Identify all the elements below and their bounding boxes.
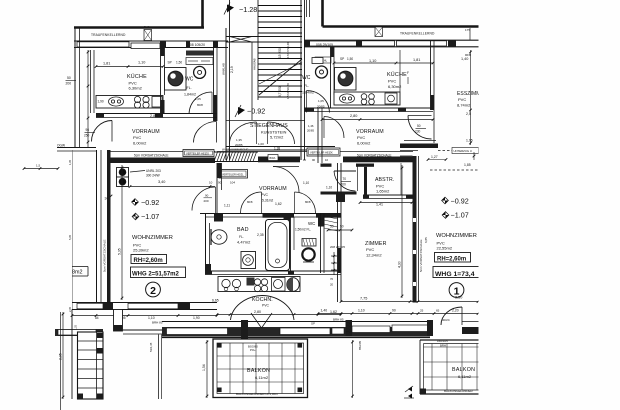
svg-text:8,7 250: 8,7 250: [278, 86, 282, 97]
balcony center tile grid horizontal: [217, 355, 304, 357]
svg-text:1,35: 1,35: [236, 138, 242, 142]
facade far-left segment: [55, 329, 103, 336]
svg-text:TRAUFENKELLERND: TRAUFENKELLERND: [91, 33, 126, 37]
svg-text:5,31m2: 5,31m2: [262, 199, 273, 203]
svg-text:SP: SP: [311, 322, 315, 326]
svg-text:1,10: 1,10: [326, 186, 332, 190]
svg-text:200: 200: [204, 199, 209, 203]
svg-text:3,40: 3,40: [158, 180, 165, 184]
svg-text:6,30m2: 6,30m2: [129, 86, 143, 91]
svg-text:008 105/20: 008 105/20: [188, 43, 205, 47]
svg-text:WNKLAB: WNKLAB: [222, 63, 226, 75]
door below wall opening left leaf: [273, 167, 299, 193]
svg-text:2,80: 2,80: [350, 114, 357, 118]
svg-text:80/8: 80/8: [247, 200, 253, 204]
kitchen counter right: [334, 92, 400, 105]
level flags bottom right: [408, 387, 412, 392]
window sill left facade 2: [131, 43, 160, 49]
wall center vorraum west: [216, 163, 218, 214]
svg-text:KÜCHE: KÜCHE: [127, 73, 147, 80]
balcony left structure: [78, 332, 104, 399]
svg-text:ABSTR.: ABSTR.: [375, 177, 394, 183]
svg-text:3,50: 3,50: [455, 296, 462, 300]
balcony right border: [420, 339, 479, 341]
label ANSCHL: [315, 57, 331, 63]
box WHG 1=73,4: [433, 267, 479, 278]
door entrance left apartment: [92, 121, 113, 142]
svg-text:1,65m2: 1,65m2: [376, 189, 390, 194]
svg-text:BAD: BAD: [237, 227, 249, 233]
facade right of balcony door: [462, 321, 479, 323]
wall stairwell east: [300, 0, 302, 160]
wall connector mid-right: [346, 320, 353, 336]
wall jog left: [123, 329, 162, 331]
shelf dark bar left wc: [186, 51, 214, 56]
svg-text:OGW: OGW: [57, 144, 65, 148]
door vorraum to wc: [295, 192, 316, 213]
balcony center corner blocks: [217, 343, 222, 348]
wall main horizontal center-right band: [258, 157, 300, 163]
svg-text:1,05: 1,05: [318, 99, 324, 103]
svg-text:1,35: 1,35: [68, 159, 72, 165]
door below wall opening right leaf: [334, 171, 356, 191]
svg-text:300 24/W: 300 24/W: [146, 174, 160, 178]
wall west lower double: [96, 150, 98, 303]
window marks zimmer west: [333, 252, 335, 275]
balcony right corner block: [420, 389, 426, 395]
svg-text:50: 50: [417, 124, 421, 128]
svg-text:70: 70: [330, 277, 334, 281]
svg-text:5,35: 5,35: [118, 248, 122, 255]
toilet right: [312, 58, 323, 64]
dashed unterzug label: [452, 148, 479, 154]
wall bad north: [200, 213, 341, 215]
box WHG 2=51,57m2: [131, 267, 186, 278]
level marker -1.28: [227, 5, 234, 13]
wall vorraum north: [96, 113, 217, 115]
svg-text:1,10: 1,10: [138, 61, 145, 65]
box RH=2,60m left: [131, 255, 167, 264]
wall south facade center top line: [162, 321, 430, 323]
svg-text:5cm VORSATZSCHALE: 5cm VORSATZSCHALE: [419, 240, 423, 272]
svg-text:1,95: 1,95: [466, 139, 473, 143]
svg-text:VERTEILER HEIZG: VERTEILER HEIZG: [186, 152, 209, 156]
level marker -1.07 right: [442, 212, 449, 219]
dim 2,35 rotated left balcony: [62, 312, 64, 399]
svg-text:1,10: 1,10: [148, 316, 155, 320]
svg-text:1,40: 1,40: [321, 309, 328, 313]
svg-text:1,10: 1,10: [358, 309, 365, 313]
svg-text:6,00m2: 6,00m2: [357, 141, 371, 146]
wall kueche east: [160, 48, 162, 113]
kochn dark appliance: [247, 278, 255, 286]
svg-text:20: 20: [330, 283, 334, 287]
svg-text:HAUSAB: HAUSAB: [253, 58, 257, 70]
svg-text:8,74m2: 8,74m2: [457, 103, 471, 108]
svg-text:BALKONGELÄNDER: BALKONGELÄNDER: [444, 389, 474, 393]
dim row second right: [318, 313, 478, 315]
wall step right: [400, 150, 418, 152]
wall hatched stahlwanne: [214, 151, 258, 153]
svg-text:4,30: 4,30: [398, 261, 402, 268]
dim line vertical west: [87, 50, 89, 147]
svg-text:80/8: 80/8: [305, 200, 311, 204]
level marker -1.07 left: [132, 213, 139, 220]
balcony right tile grid horizontal: [424, 346, 479, 348]
svg-text:1,90: 1,90: [193, 316, 200, 320]
svg-text:008 25/105: 008 25/105: [316, 43, 333, 47]
wall stairwell west: [225, 28, 227, 160]
wall stub top right wc: [306, 0, 308, 17]
svg-text:160/105: 160/105: [437, 339, 448, 343]
boiler left: [165, 68, 187, 91]
balcony center border: [213, 339, 308, 398]
svg-text:1,27: 1,27: [431, 155, 438, 159]
box VERTEILER HEIZK top: [307, 148, 340, 156]
svg-text:1,50m2 FL.: 1,50m2 FL.: [295, 228, 311, 232]
vent shaft B+S right: [375, 27, 383, 37]
dim 1,54 rotated: [206, 340, 208, 398]
svg-text:1,41: 1,41: [376, 203, 383, 207]
svg-text:4,47m2: 4,47m2: [237, 240, 251, 245]
svg-text:1,54: 1,54: [202, 364, 206, 371]
svg-text:80/8: 80/8: [197, 103, 203, 107]
svg-text:20/85: 20/85: [307, 129, 314, 133]
svg-text:1,85: 1,85: [464, 163, 471, 167]
window sill south left: [77, 303, 103, 309]
wall segment: [304, 40, 310, 47]
svg-text:BRH: BRH: [440, 344, 446, 348]
wall kueche east right: [430, 40, 432, 110]
svg-text:BRH 85: BRH 85: [333, 318, 344, 322]
svg-text:RH=2,60m: RH=2,60m: [134, 258, 163, 264]
svg-text:22,55m2: 22,55m2: [437, 246, 453, 251]
wall north facade right: [304, 39, 479, 41]
window sills facade right: [352, 326, 390, 333]
wall north facade left: [74, 40, 228, 42]
svg-text:2: 2: [150, 285, 156, 297]
svg-text:1,84m2: 1,84m2: [184, 93, 196, 97]
anschluss box left wc: [186, 58, 213, 65]
window sill left facade: [77, 42, 129, 47]
level marker -0.92 right: [442, 197, 449, 204]
dim line kueche right: [334, 62, 433, 64]
dim line vertical between balconies: [352, 340, 354, 398]
svg-text:BALKONGELÄNDER H=1,00m: BALKONGELÄNDER H=1,00m: [236, 392, 278, 396]
stair stringer line: [251, 42, 253, 120]
svg-text:PVC: PVC: [366, 247, 374, 252]
svg-text:WC: WC: [185, 77, 194, 83]
svg-text:10: 10: [209, 181, 213, 185]
dim row 7,75 / 3,50: [341, 301, 478, 303]
door stair to left apartment outer: [194, 122, 217, 143]
svg-text:5,35: 5,35: [68, 234, 72, 240]
door vorraum-right to esszimmer: [408, 116, 432, 140]
dim line wohnzimmer top: [130, 186, 215, 188]
door left wc: [189, 92, 212, 114]
svg-text:5cm VORSATZSCHALE: 5cm VORSATZSCHALE: [134, 154, 168, 158]
svg-text:1,62: 1,62: [275, 202, 282, 206]
svg-text:10: 10: [303, 158, 307, 162]
wall main horizontal left: [110, 151, 215, 153]
svg-text:6,65: 6,65: [212, 299, 219, 303]
window sill right facade 1: [310, 41, 358, 46]
svg-text:90: 90: [205, 194, 209, 198]
box VERTEILER HEIZL lower: [219, 170, 248, 179]
wall wc east shaft: [320, 214, 322, 274]
svg-text:90: 90: [312, 158, 316, 162]
bathtub: [266, 220, 290, 271]
double door kochn to balcony: [231, 296, 263, 321]
wall kochn north: [205, 270, 341, 272]
kitchen stove right: [361, 94, 367, 100]
box VERTEILER HEIZG: [183, 150, 214, 157]
svg-text:15 250: 15 250: [278, 48, 282, 58]
svg-text:1,81: 1,81: [103, 62, 110, 66]
svg-text:230: 230: [415, 130, 421, 134]
svg-text:1,10: 1,10: [369, 59, 376, 63]
wall connector left balcony: [114, 310, 123, 332]
svg-text:PVC: PVC: [357, 135, 365, 140]
svg-text:85/205: 85/205: [358, 340, 362, 350]
svg-text:BALKON: BALKON: [452, 367, 475, 373]
svg-text:RH=2,60m: RH=2,60m: [437, 256, 466, 262]
stair landing line: [226, 120, 305, 122]
door landing inner left: [230, 122, 257, 144]
svg-text:50: 50: [340, 225, 344, 229]
svg-text:1,00: 1,00: [258, 142, 264, 146]
balcony left corner blocks: [97, 348, 103, 354]
svg-text:1,11: 1,11: [224, 204, 230, 208]
svg-text:6,85: 6,85: [424, 237, 428, 243]
balcony right tile grid vertical: [431, 344, 433, 391]
electric meter cabinet: [117, 168, 129, 178]
svg-text:7,75: 7,75: [360, 297, 367, 301]
wall west vorsatzschale band: [107, 150, 111, 303]
door right wohnzimmer to balcony: [441, 307, 462, 325]
svg-text:1,90: 1,90: [98, 100, 104, 104]
svg-text:20/85: 20/85: [317, 105, 325, 109]
svg-text:KOCHN.: KOCHN.: [252, 297, 273, 303]
line kueche right counter east: [399, 50, 401, 92]
svg-text:5cm VORSATZSCHALE: 5cm VORSATZSCHALE: [103, 240, 107, 272]
kochn fridge oval: [287, 278, 299, 292]
svg-text:1,10: 1,10: [303, 181, 309, 185]
svg-text:84: 84: [95, 316, 99, 320]
svg-text:1,25: 1,25: [74, 324, 78, 330]
svg-text:90: 90: [392, 309, 396, 313]
svg-text:5cm VORSATZSCHALE: 5cm VORSATZSCHALE: [357, 154, 391, 158]
svg-text:PVC: PVC: [133, 135, 141, 140]
svg-text:96: 96: [86, 128, 90, 132]
svg-text:FL.: FL.: [239, 235, 244, 239]
svg-text:175: 175: [465, 28, 470, 32]
svg-text:PO+: PO+: [250, 348, 256, 352]
toilet left: [194, 66, 206, 78]
svg-text:W-STAHLWANSCHE: W-STAHLWANSCHE: [222, 148, 248, 152]
svg-text:90/24: 90/24: [442, 318, 450, 322]
door landing inner right: [268, 122, 295, 144]
wall connector right: [427, 320, 433, 336]
kochn oven: [272, 278, 286, 292]
wall connector center: [241, 320, 248, 339]
svg-text:34: 34: [105, 197, 109, 201]
svg-text:2,80: 2,80: [150, 114, 157, 118]
svg-text:2,35: 2,35: [68, 306, 72, 312]
svg-text:1,81: 1,81: [413, 58, 420, 62]
page left lower line: [60, 312, 62, 410]
kitchen sink left: [109, 97, 124, 106]
kitchen counter center: [218, 277, 300, 292]
wall segment below door F: [321, 192, 357, 195]
wall neighbour-top-right corner: [321, 0, 324, 27]
wall segment above abstr: [321, 164, 332, 167]
svg-text:−0.92: −0.92: [451, 197, 469, 206]
dim line vertical esszimmer: [470, 50, 472, 145]
washing machine: [241, 252, 256, 269]
svg-text:70: 70: [343, 177, 347, 181]
svg-text:1,05: 1,05: [195, 97, 201, 101]
facade dark band: [162, 327, 430, 337]
counter appliance right: [385, 93, 397, 104]
wall abstr south: [363, 194, 413, 196]
svg-text:TRAUFENKELLERND: TRAUFENKELLERND: [400, 32, 435, 36]
apartment number 2 circled: [146, 282, 161, 297]
wall wc/kueche right: [330, 47, 332, 108]
wall vorraum-right north: [304, 107, 433, 109]
balcony left outer wall: [71, 310, 73, 400]
dim rotated 5,35: [121, 165, 123, 300]
stair going line diagonal: [259, 59, 302, 95]
svg-text:BRH 85: BRH 85: [152, 321, 163, 325]
svg-text:10: 10: [325, 158, 329, 162]
door vorraum to bad: [241, 192, 262, 213]
counter appliance: [152, 97, 162, 108]
svg-text:250: 250: [84, 134, 90, 138]
svg-text:5,72m2: 5,72m2: [270, 135, 284, 140]
dim line left low: [24, 168, 58, 170]
svg-text:8m2: 8m2: [72, 270, 83, 276]
svg-text:50: 50: [67, 76, 71, 80]
kochn stove circles: [254, 279, 260, 285]
dim rotated 4,30: [401, 165, 403, 298]
dim line vorraum right: [322, 119, 433, 121]
svg-text:PVC: PVC: [388, 79, 396, 84]
window sill right facade 2: [362, 41, 395, 46]
svg-text:WC: WC: [308, 221, 315, 226]
line abstr east: [400, 163, 402, 195]
svg-text:1,50: 1,50: [347, 57, 353, 61]
wall lines right of balcony strip: [158, 335, 160, 400]
svg-text:PVC: PVC: [458, 97, 466, 102]
washbasin bad: [211, 230, 227, 244]
svg-text:1,46: 1,46: [308, 124, 314, 128]
svg-text:SP: SP: [168, 61, 172, 65]
window sill small: [332, 328, 344, 334]
kitchen sink right: [340, 94, 355, 103]
svg-text:200: 200: [341, 183, 347, 187]
svg-text:6,11m2: 6,11m2: [255, 375, 269, 380]
wall neighbour-top-left corner: [74, 26, 204, 29]
svg-text:−0.92: −0.92: [141, 198, 159, 207]
svg-text:1,38: 1,38: [274, 147, 280, 151]
wall bad west: [205, 214, 207, 274]
wall south left apartment: [72, 302, 217, 304]
door stair to right apartment outer: [324, 117, 344, 139]
svg-text:B+S: B+S: [144, 25, 149, 29]
svg-text:1,40: 1,40: [461, 57, 468, 61]
leader line meter: [130, 171, 145, 173]
svg-text:2,35: 2,35: [257, 233, 264, 237]
svg-text:BWA: BWA: [270, 156, 276, 160]
svg-text:2,19: 2,19: [230, 66, 234, 73]
dashed line lower: [430, 169, 479, 171]
small box BWA: [268, 155, 278, 161]
kitchen counter left: [96, 96, 163, 109]
svg-text:1,50: 1,50: [176, 61, 182, 65]
svg-text:PVC: PVC: [261, 193, 269, 197]
svg-text:6,11m2: 6,11m2: [458, 374, 472, 379]
window sill facade center: [167, 328, 228, 335]
wall bad/wc divider: [290, 217, 292, 273]
apartment number 1 circled: [449, 283, 464, 298]
toilet center: [302, 239, 316, 247]
svg-text:VERTEILER HEIZK: VERTEILER HEIZK: [310, 151, 333, 155]
stairs middle flight treads: [258, 47, 302, 49]
wall segment: [160, 41, 166, 48]
svg-text:25: 25: [420, 309, 424, 313]
wall south face bottom line: [162, 337, 430, 339]
wall west outer left apartment: [74, 28, 76, 149]
wall west step: [57, 147, 96, 149]
svg-text:50: 50: [330, 225, 334, 229]
svg-text:208 25/105: 208 25/105: [330, 245, 345, 249]
svg-text:200: 200: [66, 82, 72, 86]
balcony left rungs: [78, 340, 104, 342]
svg-text:BALKON: BALKON: [247, 368, 270, 374]
svg-text:53/1,35: 53/1,35: [149, 342, 153, 352]
wall black segments south: [103, 303, 113, 310]
svg-text:WC: WC: [302, 75, 311, 81]
boiler right: [335, 68, 357, 91]
svg-text:KÜCHE: KÜCHE: [387, 71, 407, 78]
svg-text:1,5: 1,5: [36, 164, 41, 168]
svg-text:−1.07: −1.07: [141, 212, 159, 221]
svg-text:2,80: 2,80: [254, 310, 261, 314]
svg-text:UNTERZUG U: UNTERZUG U: [454, 149, 472, 153]
svg-text:FL.: FL.: [304, 84, 309, 88]
svg-text:SP: SP: [340, 57, 344, 61]
svg-text:F: F: [407, 71, 409, 75]
door vorraum to wohnzimmer left: [192, 187, 216, 211]
window sill right facade 3: [397, 41, 447, 46]
svg-text:25,39m2: 25,39m2: [133, 248, 149, 253]
level marker -0.92 stair: [238, 107, 245, 115]
dim line kueche top: [96, 66, 163, 68]
svg-text:WOHNZIMMER: WOHNZIMMER: [436, 233, 477, 239]
svg-text:VORRAUM: VORRAUM: [259, 186, 287, 192]
balcony center tile grid vertical: [229, 343, 231, 394]
svg-text:UNRL 203: UNRL 203: [146, 169, 161, 173]
box RH=2,60m right: [435, 253, 471, 263]
door jamb line: [357, 167, 359, 192]
dim line south left: [72, 315, 217, 317]
wall east of zimmer vorsatzschale: [413, 156, 417, 303]
svg-text:104: 104: [230, 181, 235, 185]
shaft hatch: [324, 216, 338, 219]
window sill facade mid: [280, 328, 330, 335]
svg-text:FL.: FL.: [187, 86, 192, 90]
